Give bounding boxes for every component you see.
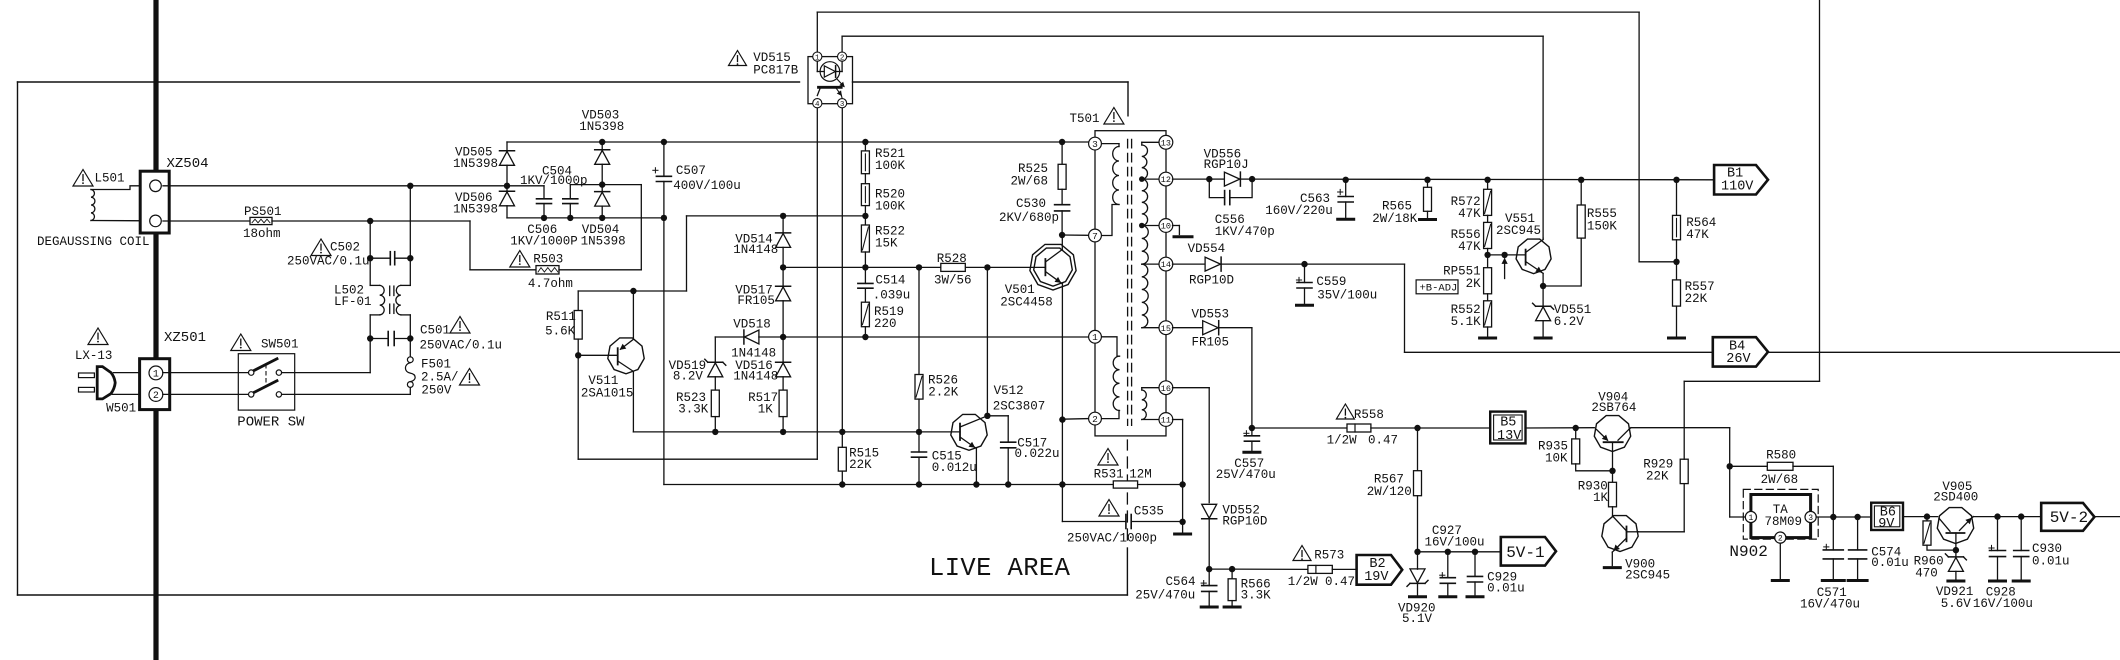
- T501 primary winding 1-2: [1101, 337, 1119, 356]
- T501 pin 11: [1159, 413, 1173, 427]
- diode VD552: [1202, 518, 1217, 520]
- resistor R565: [1427, 180, 1429, 188]
- resistor R564: [1676, 180, 1678, 216]
- resistor R511: [577, 291, 579, 311]
- svg-text:12: 12: [1161, 175, 1171, 185]
- flag B2 19V: [1357, 555, 1403, 585]
- capacitor C517: [987, 415, 1008, 417]
- ground: [1420, 218, 1436, 221]
- svg-text:12M: 12M: [1129, 467, 1152, 481]
- capacitor C514: [864, 267, 866, 283]
- svg-text:3.3K: 3.3K: [1241, 588, 1272, 602]
- svg-text:15: 15: [1161, 324, 1171, 334]
- svg-text:2SC945: 2SC945: [1496, 224, 1541, 238]
- svg-text:47K: 47K: [1458, 207, 1481, 221]
- svg-text:15K: 15K: [875, 237, 898, 251]
- transistor V900: [1602, 516, 1638, 552]
- svg-text:5.1V: 5.1V: [1402, 612, 1433, 626]
- svg-text:VD554: VD554: [1188, 242, 1226, 256]
- wire primary ground bus (y=484.5): [664, 484, 1113, 486]
- svg-text:3: 3: [1808, 514, 1813, 523]
- svg-text:1K: 1K: [1593, 491, 1609, 505]
- warning SW501: [231, 334, 251, 351]
- svg-text:78M09: 78M09: [1765, 515, 1803, 529]
- svg-text:13V: 13V: [1497, 429, 1522, 444]
- svg-text:1N5398: 1N5398: [579, 120, 624, 134]
- diode VD514: [782, 216, 784, 233]
- T501 pin 10: [1159, 219, 1173, 233]
- svg-text:C559: C559: [1316, 275, 1346, 289]
- wire B4 to right edge: [1768, 351, 2120, 353]
- resistor R521: [864, 142, 866, 151]
- wire bridge right leg to R503: [602, 184, 641, 186]
- svg-text:25V/470u: 25V/470u: [1216, 468, 1276, 482]
- svg-text:0.01u: 0.01u: [2032, 555, 2070, 569]
- ground: [1535, 337, 1551, 340]
- svg-text:1KV/470p: 1KV/470p: [1215, 225, 1275, 239]
- svg-text:10: 10: [1161, 222, 1171, 232]
- svg-text:2W/68: 2W/68: [1010, 175, 1048, 189]
- ground pin11 net: [1182, 522, 1184, 532]
- svg-text:3W/56: 3W/56: [934, 274, 972, 288]
- capacitor C535: [1125, 515, 1127, 529]
- wire B1 rail (y=180): [1252, 178, 1714, 181]
- resistor R555: [1580, 180, 1582, 205]
- svg-text:XZ501: XZ501: [164, 330, 206, 346]
- resistor PS501: [163, 220, 250, 222]
- svg-text:1: 1: [1092, 332, 1098, 343]
- svg-text:100K: 100K: [875, 159, 906, 173]
- wire XZ504 pin1 to bridge (AC1): [163, 185, 507, 187]
- svg-text:1/2W: 1/2W: [1327, 433, 1358, 447]
- live area border left: [17, 82, 19, 595]
- svg-text:7: 7: [1092, 231, 1098, 242]
- wire pin16 down: [1173, 387, 1210, 389]
- wire V900 collector to R929: [1638, 531, 1684, 533]
- svg-text:FR105: FR105: [1192, 336, 1230, 350]
- ground: [1175, 533, 1191, 536]
- warning R531: [1098, 449, 1118, 466]
- svg-text:2: 2: [1092, 414, 1098, 425]
- T501 pin 16: [1159, 381, 1173, 395]
- svg-text:2SA1015: 2SA1015: [581, 386, 634, 400]
- svg-text:35V/100u: 35V/100u: [1317, 289, 1377, 303]
- svg-text:1KV/1000p: 1KV/1000p: [520, 174, 588, 188]
- svg-text:PC817B: PC817B: [753, 63, 799, 77]
- svg-text:5V-1: 5V-1: [1506, 544, 1544, 562]
- svg-text:C530: C530: [1016, 197, 1046, 211]
- wire AC2 jog down to R503: [469, 221, 471, 270]
- live area border top: [18, 81, 800, 83]
- T501 primary winding 3-7: [1101, 143, 1119, 145]
- svg-text:R558: R558: [1354, 408, 1384, 422]
- svg-text:0.01u: 0.01u: [1871, 556, 1909, 570]
- svg-text:C502: C502: [330, 241, 360, 255]
- wire V501 emitter to C535: [1061, 485, 1063, 522]
- svg-text:2.5A/: 2.5A/: [421, 371, 459, 385]
- resistor R556: [1484, 222, 1492, 248]
- resistor R566: [1209, 568, 1232, 570]
- regulator N902 TA78M09: [1743, 489, 1818, 539]
- T501 secondary winding 13-12: [1142, 141, 1160, 143]
- svg-text:47K: 47K: [1458, 240, 1481, 254]
- svg-text:1N4148: 1N4148: [733, 243, 778, 257]
- transistor V551: [1516, 239, 1551, 274]
- svg-text:16V/100u: 16V/100u: [1425, 536, 1485, 550]
- wire R511 to opto pin4: [577, 355, 579, 459]
- ground: [1848, 579, 1867, 582]
- resistor R525: [1061, 142, 1063, 164]
- wire opto pin1 top line: [816, 12, 818, 52]
- diode VD554: [1220, 257, 1222, 271]
- capacitor C563: [1345, 180, 1347, 197]
- wire V904 collector to N902: [1629, 428, 1631, 430]
- T501 pin 2: [1089, 412, 1102, 425]
- capacitor C557: [1251, 428, 1253, 436]
- wire switch to filter left: [282, 372, 371, 374]
- svg-text:R511: R511: [546, 310, 576, 324]
- wire B6 to V905: [1903, 516, 1938, 518]
- svg-text:18ohm: 18ohm: [243, 227, 281, 241]
- transistor V512: [951, 414, 987, 450]
- ground: [1440, 595, 1456, 598]
- T501 pin 7: [1089, 229, 1102, 242]
- svg-text:R573: R573: [1314, 548, 1344, 562]
- box B5 13V: [1490, 412, 1525, 444]
- fuse F501: [407, 357, 413, 363]
- svg-text:400V/100u: 400V/100u: [673, 179, 741, 193]
- svg-text:16V/100u: 16V/100u: [1973, 597, 2033, 611]
- svg-text:2.2K: 2.2K: [928, 386, 959, 400]
- ground: [1410, 595, 1426, 598]
- wire XZ501 pin2 to switch: [163, 393, 249, 395]
- svg-text:2SC3807: 2SC3807: [993, 399, 1046, 413]
- resistor R567: [1417, 428, 1419, 471]
- resistor R522: [864, 216, 866, 225]
- resistor R960: [1926, 517, 1928, 521]
- capacitor C927: [1447, 552, 1449, 578]
- wire XZ501 pin1 to switch: [163, 372, 249, 374]
- ground: [1822, 579, 1844, 582]
- capacitor C571: [1832, 517, 1834, 550]
- warning VD515: [729, 51, 747, 66]
- svg-text:16V/470u: 16V/470u: [1800, 598, 1860, 612]
- T501 core: [1127, 139, 1129, 425]
- svg-text:160V/220u: 160V/220u: [1265, 204, 1333, 218]
- T501 pin 13: [1159, 135, 1173, 149]
- resistor R523: [711, 390, 719, 417]
- flag 5V-1: [1501, 537, 1556, 566]
- capacitor C556: [1209, 179, 1224, 198]
- ground pin10: [1174, 235, 1192, 238]
- svg-text:2KV/680p: 2KV/680p: [999, 211, 1059, 225]
- degaussing coil L501: [91, 190, 95, 221]
- resistor R930: [1612, 471, 1614, 483]
- svg-text:C514: C514: [875, 274, 905, 288]
- T501 pin 15: [1159, 321, 1173, 335]
- wire 5V-2 to edge: [2094, 516, 2120, 518]
- ground: [1990, 580, 2006, 583]
- wire pin10 to ground: [1173, 225, 1180, 227]
- zener VD519: [714, 337, 716, 362]
- svg-text:5.6K: 5.6K: [545, 324, 576, 338]
- wire B2 line: [1232, 568, 1308, 570]
- svg-text:110V: 110V: [1721, 180, 1754, 195]
- wire T501 pin7: [1062, 234, 1089, 236]
- resistor R526: [918, 267, 920, 374]
- resistor R503: [470, 269, 536, 271]
- chassis isolation thick line: [153, 0, 158, 660]
- resistor R580: [1730, 465, 1768, 467]
- ground: [1604, 566, 1620, 569]
- svg-text:1K: 1K: [758, 403, 774, 417]
- svg-text:0.012u: 0.012u: [932, 461, 977, 475]
- diode VD504: [601, 185, 603, 192]
- line filter L502: [369, 315, 371, 339]
- diode VD505: [506, 142, 508, 151]
- T501 pin 1: [1089, 330, 1102, 343]
- svg-text:2SC4458: 2SC4458: [1000, 296, 1053, 310]
- resistor R519: [861, 302, 869, 327]
- wire R558 line (y=428): [1252, 427, 1347, 429]
- capacitor C929: [1474, 552, 1476, 577]
- svg-text:0.47: 0.47: [1325, 575, 1355, 589]
- capacitor C564: [1208, 569, 1210, 586]
- ground: [1669, 337, 1685, 340]
- svg-text:470: 470: [1915, 567, 1938, 581]
- svg-text:4: 4: [815, 101, 820, 109]
- svg-text:VD518: VD518: [733, 318, 771, 332]
- wire pin14 line: [1173, 263, 1205, 265]
- svg-text:220: 220: [874, 317, 897, 331]
- transformer T501 body: [1095, 131, 1166, 436]
- flag B4 26V: [1713, 337, 1768, 366]
- resistor R528: [941, 263, 966, 271]
- box B6 9V: [1871, 503, 1903, 530]
- svg-text:5V-2: 5V-2: [2050, 509, 2088, 527]
- svg-text:RGP10D: RGP10D: [1222, 514, 1267, 528]
- svg-text:2SB764: 2SB764: [1591, 401, 1636, 415]
- zener VD920: [1417, 552, 1419, 569]
- svg-text:9V: 9V: [1878, 517, 1895, 532]
- resistor R572: [1487, 180, 1489, 190]
- wire feedback line (y=216): [687, 215, 866, 217]
- diode VD553: [1218, 321, 1220, 335]
- flag B1 110V: [1714, 165, 1768, 195]
- svg-text:3: 3: [840, 101, 845, 109]
- svg-text:C501: C501: [420, 324, 450, 338]
- svg-text:.039u: .039u: [873, 288, 911, 302]
- wire R528 line (y=267): [783, 266, 941, 268]
- warning C501: [450, 317, 470, 334]
- svg-text:2SC945: 2SC945: [1625, 569, 1670, 583]
- T501 secondary winding 16-11: [1142, 387, 1160, 389]
- svg-text:250VAC/0.1u: 250VAC/0.1u: [287, 255, 370, 269]
- diode VD518: [715, 336, 744, 338]
- svg-text:4.7ohm: 4.7ohm: [528, 277, 573, 291]
- svg-text:1N5398: 1N5398: [581, 235, 626, 249]
- svg-text:26V: 26V: [1726, 352, 1751, 367]
- T501 secondary winding 10-14: [1142, 226, 1148, 265]
- wire main bus B+ (y=142): [507, 141, 1089, 143]
- resistor R515: [841, 108, 843, 432]
- T501 pin 12: [1159, 172, 1173, 186]
- warning LX-13: [88, 328, 108, 345]
- diode VD556: [1209, 178, 1223, 180]
- ground: [1201, 606, 1217, 609]
- wire switch to fuse: [282, 393, 411, 395]
- live area border top right segment: [853, 81, 1129, 83]
- wire V905 emitter out: [1973, 516, 2041, 518]
- svg-text:+B-ADJ: +B-ADJ: [1420, 283, 1458, 295]
- diode VD503: [601, 142, 603, 150]
- capacitor C928: [1997, 517, 1999, 551]
- svg-text:1: 1: [1748, 514, 1753, 523]
- svg-text:0.01u: 0.01u: [1487, 582, 1525, 596]
- label +B-ADJ: [1416, 280, 1458, 294]
- warning L501: [73, 170, 93, 187]
- svg-text:W501: W501: [106, 402, 136, 416]
- wire plug to XZ501 pin2: [113, 393, 150, 395]
- ground: [2013, 580, 2029, 583]
- svg-text:1N5398: 1N5398: [453, 157, 498, 171]
- capacitor C515: [918, 432, 920, 452]
- wire V551 base: [1488, 254, 1526, 256]
- svg-text:C507: C507: [676, 164, 706, 178]
- optocoupler VD515 PC817B: [808, 57, 853, 104]
- svg-text:V512: V512: [994, 384, 1024, 398]
- diode VD517: [782, 267, 784, 286]
- warning R558: [1336, 404, 1354, 419]
- resistor R929: [1680, 459, 1688, 483]
- potentiometer RP551: [1487, 255, 1489, 268]
- resistor R557: [1676, 262, 1678, 280]
- svg-text:2: 2: [1778, 534, 1783, 543]
- capacitor C507: [663, 142, 665, 176]
- svg-text:C535: C535: [1134, 505, 1164, 519]
- svg-text:150K: 150K: [1587, 220, 1618, 234]
- capacitor C501: [387, 332, 389, 346]
- svg-text:R528: R528: [937, 252, 967, 266]
- live area border bottom: [18, 594, 1128, 596]
- ground: [1244, 451, 1260, 454]
- resistor R520: [861, 184, 869, 206]
- capacitor C506: [507, 185, 544, 187]
- svg-text:2: 2: [840, 54, 845, 62]
- warning T501: [1104, 108, 1124, 125]
- wire input to N902: [1729, 466, 1731, 517]
- wire V904 base: [1612, 442, 1614, 471]
- connector XZ501: [140, 359, 170, 410]
- warning C502: [311, 239, 331, 256]
- svg-text:1N5398: 1N5398: [453, 203, 498, 217]
- capacitor C502: [389, 252, 391, 265]
- warning C535: [1099, 500, 1119, 517]
- svg-text:100K: 100K: [875, 200, 906, 214]
- svg-text:C564: C564: [1166, 575, 1196, 589]
- svg-text:25V/470u: 25V/470u: [1135, 588, 1195, 602]
- warning R573: [1293, 546, 1311, 561]
- svg-text:22K: 22K: [849, 458, 872, 472]
- svg-text:LF-01: LF-01: [334, 295, 372, 309]
- svg-text:PS501: PS501: [244, 205, 282, 219]
- warning R503: [510, 251, 530, 268]
- live area border right: [1126, 548, 1128, 595]
- plug W501: [79, 373, 95, 378]
- ground: [1467, 595, 1483, 598]
- wire pin15 line: [1173, 327, 1202, 329]
- capacitor C574: [1857, 517, 1859, 550]
- svg-text:POWER SW: POWER SW: [237, 415, 305, 431]
- svg-text:1N4148: 1N4148: [733, 370, 778, 384]
- svg-text:XZ504: XZ504: [167, 156, 209, 172]
- svg-text:3: 3: [1092, 139, 1098, 150]
- transistor V904: [1594, 416, 1630, 452]
- resistor R935: [1575, 428, 1577, 439]
- svg-text:11: 11: [1161, 416, 1171, 426]
- svg-text:2W/18K: 2W/18K: [1372, 212, 1418, 226]
- ground: [1948, 580, 1964, 583]
- svg-text:1: 1: [153, 370, 159, 381]
- svg-text:F501: F501: [421, 358, 451, 372]
- svg-text:5.1K: 5.1K: [1451, 315, 1482, 329]
- svg-text:0.47: 0.47: [1368, 433, 1398, 447]
- ground: [1338, 218, 1354, 221]
- wire T501 pin1 line (y=337): [783, 336, 1089, 338]
- zener VD921: [1955, 550, 1957, 557]
- flag 5V-2: [2041, 503, 2094, 531]
- svg-text:RGP10J: RGP10J: [1204, 158, 1249, 172]
- svg-text:5.6V: 5.6V: [1941, 597, 1972, 611]
- svg-text:1KV/1000P: 1KV/1000P: [510, 235, 578, 249]
- wire B4 rail: [1404, 264, 1406, 352]
- svg-text:16: 16: [1161, 384, 1171, 394]
- ground: [1772, 579, 1788, 582]
- wire filter left up to PS501 line: [369, 221, 371, 258]
- svg-text:R580: R580: [1766, 448, 1796, 462]
- wire N902 output: [1816, 516, 1871, 518]
- power switch SW501: [238, 354, 294, 410]
- svg-text:SW501: SW501: [261, 338, 299, 352]
- svg-text:0.022u: 0.022u: [1015, 447, 1060, 461]
- svg-text:2W/68: 2W/68: [1761, 473, 1799, 487]
- svg-text:L501: L501: [95, 172, 125, 186]
- wire negative bus (y=218): [507, 217, 664, 219]
- transistor V511: [608, 338, 644, 374]
- svg-text:2K: 2K: [1466, 277, 1482, 291]
- diode VD516: [782, 337, 784, 362]
- T501 pin 3: [1089, 137, 1102, 150]
- svg-text:LIVE AREA: LIVE AREA: [929, 554, 1071, 583]
- resistor R552: [1484, 301, 1492, 327]
- capacitor C504: [570, 184, 602, 186]
- wire top feed jog: [1684, 380, 1819, 382]
- svg-text:1/2W: 1/2W: [1288, 575, 1319, 589]
- svg-text:1: 1: [815, 54, 820, 62]
- resistor R531: [1113, 481, 1137, 488]
- svg-text:13: 13: [1161, 138, 1171, 148]
- svg-text:R503: R503: [533, 252, 563, 266]
- transistor V905: [1937, 508, 1973, 544]
- svg-text:2: 2: [153, 391, 159, 402]
- capacitor C530: [1055, 204, 1070, 206]
- svg-text:N902: N902: [1729, 543, 1767, 561]
- connector XZ504: [140, 171, 169, 233]
- ground N902 pin2: [1779, 543, 1781, 578]
- transistor V501: [1030, 244, 1076, 290]
- svg-text:250VAC/1000p: 250VAC/1000p: [1067, 532, 1157, 546]
- svg-text:6.2V: 6.2V: [1554, 315, 1585, 329]
